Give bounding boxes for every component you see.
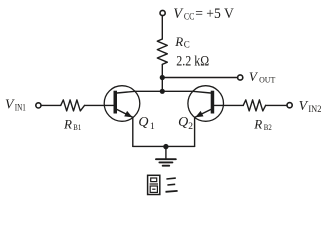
svg-text:2.2 kΩ: 2.2 kΩ — [176, 53, 209, 69]
node junction dot collector bus — [160, 89, 165, 94]
svg-text:C: C — [184, 40, 190, 50]
wire RB2 to VIN2 — [266, 104, 287, 106]
圖 outer box — [148, 175, 160, 194]
wire RB1 to Q1 base — [85, 104, 115, 106]
node junction dot at VOUT branch — [160, 75, 165, 80]
圖 bottom box — [150, 186, 157, 192]
node junction dot emitter bus — [163, 144, 168, 149]
svg-text:Q: Q — [138, 115, 148, 130]
resistor RB2 — [243, 100, 265, 111]
wire emitter bus — [133, 145, 195, 147]
圖 inner top mouth — [151, 178, 157, 182]
wire Q2 emitter down — [194, 117, 196, 146]
三 top stroke — [166, 177, 175, 180]
label VOUT — [249, 69, 276, 85]
wire RC to collector bus — [161, 64, 163, 91]
svg-text:2: 2 — [188, 122, 193, 132]
label RC — [174, 34, 189, 50]
ground — [156, 159, 176, 166]
wire Q2 base to RB2 — [214, 104, 243, 106]
圖 bottom inner — [152, 188, 155, 190]
resistor RC — [157, 39, 167, 64]
label RB2 — [253, 116, 271, 132]
wire VIN1 to RB1 — [41, 104, 61, 106]
svg-text:B2: B2 — [264, 122, 272, 132]
svg-text:CC: CC — [184, 12, 195, 23]
wire node to VOUT — [162, 77, 237, 79]
svg-text:1: 1 — [150, 122, 155, 132]
terminal VIN1 — [36, 103, 41, 108]
svg-text:IN1: IN1 — [15, 103, 26, 113]
label VIN1 — [5, 96, 26, 113]
svg-text:B1: B1 — [73, 122, 81, 132]
svg-text:= +5 V: = +5 V — [195, 6, 234, 22]
label Q1 — [138, 115, 155, 132]
label Q2 — [178, 115, 193, 132]
caption 圖三 — [148, 175, 178, 194]
label VCC = +5 V — [173, 6, 234, 23]
三 bottom stroke — [166, 190, 178, 193]
svg-text:Q: Q — [178, 115, 188, 130]
resistor RB1 — [61, 100, 85, 111]
terminal VCC — [160, 10, 165, 15]
label VIN2 — [299, 98, 322, 115]
wire to ground — [165, 147, 167, 159]
svg-text:R: R — [174, 34, 183, 49]
transistor Q1 — [104, 86, 140, 122]
三 middle stroke — [167, 183, 175, 186]
svg-text:IN2: IN2 — [308, 105, 321, 115]
svg-text:R: R — [63, 116, 72, 131]
wire VCC to RC — [161, 16, 163, 39]
transistor Q2 — [188, 86, 224, 122]
圖 middle bar — [150, 183, 158, 185]
wire Q1 emitter down — [132, 117, 134, 146]
svg-text:OUT: OUT — [259, 75, 276, 85]
svg-text:R: R — [253, 116, 262, 131]
wire collector bus — [135, 90, 193, 92]
label RB1 — [63, 116, 81, 132]
terminal VOUT — [238, 75, 243, 80]
terminal VIN2 — [287, 103, 292, 108]
